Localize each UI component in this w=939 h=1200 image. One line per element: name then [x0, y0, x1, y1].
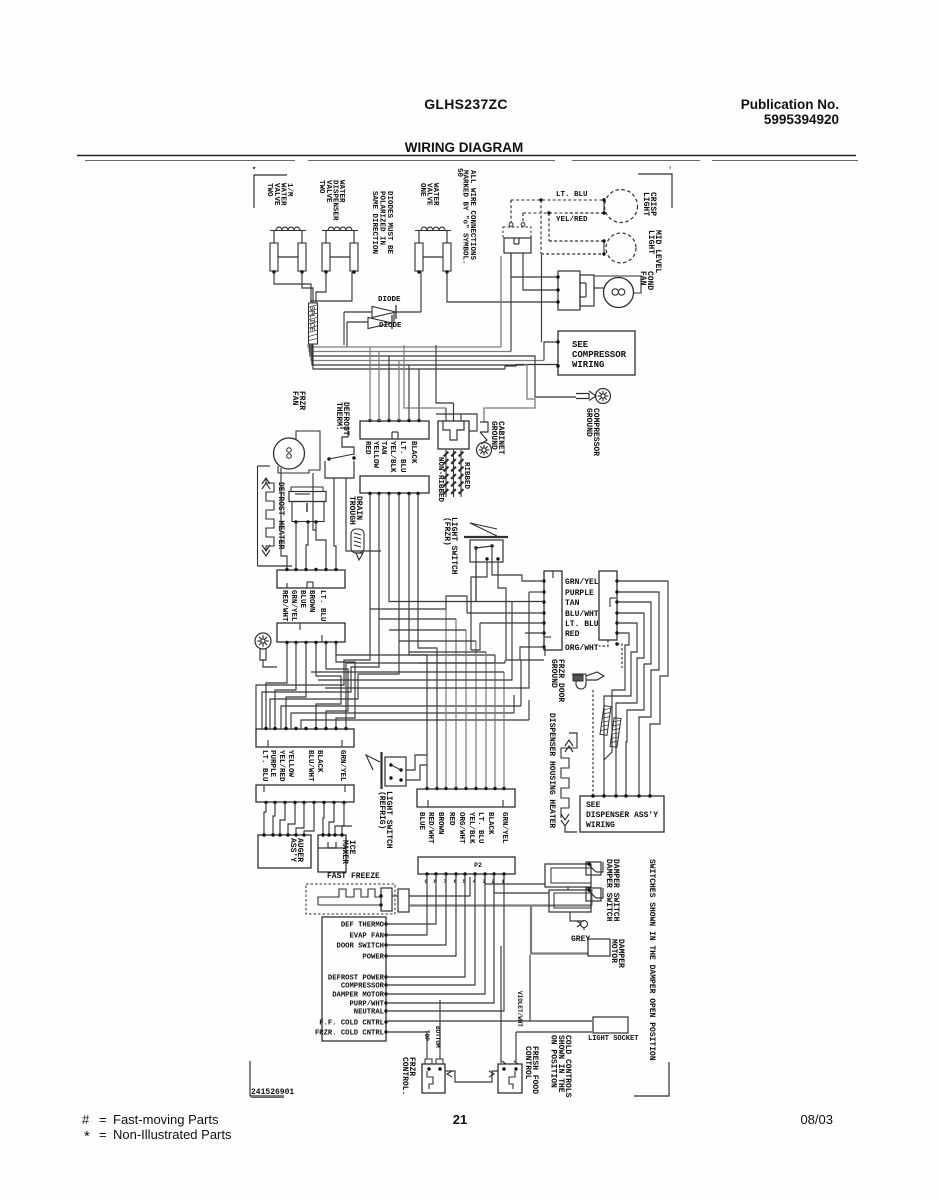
svg-text:EVAP FAN: EVAP FAN — [349, 933, 384, 941]
svg-text:WIRING DIAGRAM: WIRING DIAGRAM — [405, 140, 524, 155]
freezer long connector upper — [256, 729, 354, 747]
svg-text:TAN: TAN — [565, 599, 580, 608]
defrost thermostat — [340, 428, 354, 455]
fresh food door harness strip left — [544, 571, 562, 650]
fresh food door harness strip right — [599, 571, 617, 640]
wire valve one left lead — [420, 272, 422, 312]
svg-text:RED: RED — [565, 630, 580, 639]
svg-text:GRN/YEL: GRN/YEL — [289, 590, 297, 622]
svg-text:P2: P2 — [474, 862, 482, 869]
svg-text:RED: RED — [447, 812, 455, 826]
defrost heater terminal block — [291, 487, 323, 492]
svg-text:PURP/WHT: PURP/WHT — [349, 1001, 384, 1009]
ribbed wire connector — [438, 421, 469, 449]
svg-text:AUGERASS'Y: AUGERASS'Y — [288, 838, 304, 862]
wire dashed yel/red — [523, 212, 598, 214]
solenoid water valve one — [415, 230, 451, 232]
svg-text:F.F. COLD CNTRL: F.F. COLD CNTRL — [319, 1020, 384, 1028]
freezer long connector lower — [256, 785, 354, 802]
wire thermostat to freezer connector — [334, 478, 336, 569]
strip terminals — [542, 579, 545, 582]
svg-text:LT. BLU: LT. BLU — [476, 812, 484, 844]
svg-text:GLHS237ZC: GLHS237ZC — [424, 96, 508, 112]
svg-text:21: 21 — [453, 1112, 467, 1127]
svg-text:YEL/BLK: YEL/BLK — [467, 812, 475, 844]
svg-text:ALL WIRE CONNECTIONSMARKED BY: ALL WIRE CONNECTIONSMARKED BY "o" SYMBOL… — [461, 170, 476, 265]
svg-text:ORG/WHT: ORG/WHT — [457, 812, 465, 844]
svg-text:5995394920: 5995394920 — [764, 112, 839, 127]
svg-text:DEFROST POWER: DEFROST POWER — [328, 975, 385, 983]
light switch frzr — [464, 523, 508, 562]
see dispenser assy wiring box — [580, 796, 664, 832]
wire valve one right lead — [447, 272, 558, 302]
fresh food cold control — [498, 1061, 522, 1093]
frzr cold control — [422, 1059, 445, 1093]
cabinet ground lug — [480, 422, 488, 432]
svg-text:Fast-moving Parts: Fast-moving Parts — [113, 1112, 219, 1127]
wires crossing nest to lower connector — [256, 643, 529, 729]
splice SP2 — [600, 706, 611, 736]
freezer harness connector lower — [277, 623, 345, 642]
condenser fan motor — [604, 278, 634, 308]
wire dashed lt.blu to crisp light — [511, 199, 604, 201]
wire dashed org/wht to frzr door ground — [617, 644, 622, 668]
svg-text:LT. BLU: LT. BLU — [556, 191, 588, 199]
wires bus down to evaporator connector — [370, 347, 419, 421]
svg-text:241526901: 241526901 — [251, 1088, 294, 1097]
svg-text:FRZR. COLD CNTRL: FRZR. COLD CNTRL — [315, 1030, 384, 1038]
svg-text:50: 50 — [455, 168, 463, 178]
defrost heater element — [258, 466, 293, 566]
svg-text:LT. BLU: LT. BLU — [565, 620, 599, 629]
damper motor box — [588, 939, 610, 956]
wires from frzr light switch — [475, 562, 477, 601]
wires from lower connector nested drop — [266, 643, 355, 729]
title rule — [77, 155, 856, 157]
svg-text:DAMPER MOTOR: DAMPER MOTOR — [332, 992, 384, 1000]
wires connector to auger — [262, 803, 314, 837]
ribbed wires hatched — [444, 450, 464, 497]
svg-text:CABINETGROUND: CABINETGROUND — [489, 421, 505, 455]
svg-text:NON-RIBBED: NON-RIBBED — [436, 457, 444, 503]
wire to light socket — [386, 1020, 592, 1022]
ground lug left — [255, 633, 271, 649]
svg-text:BLACK: BLACK — [409, 441, 417, 464]
svg-text:SEE: SEE — [586, 801, 601, 810]
svg-text:POWER: POWER — [362, 954, 384, 962]
svg-text:=: = — [99, 1112, 107, 1127]
svg-text:ORG/WHT: ORG/WHT — [565, 644, 599, 653]
frame bracket top-left — [254, 175, 287, 208]
svg-text:COMPRESSOR: COMPRESSOR — [572, 350, 627, 360]
svg-text:DAMPER SWITCHDAMPER SWITCH: DAMPER SWITCHDAMPER SWITCH — [604, 859, 620, 922]
fast freeze heater element — [318, 888, 392, 911]
splice SP1 — [309, 303, 318, 344]
wire valve two left lead to splice — [274, 272, 311, 303]
svg-text:BLUE: BLUE — [298, 590, 306, 609]
svg-text:DOOR SWITCH: DOOR SWITCH — [337, 943, 384, 951]
damper switch lower — [549, 888, 601, 912]
solenoid water dispenser valve two — [322, 230, 358, 232]
wire between cold controls — [445, 1071, 498, 1082]
damper switch upper — [545, 862, 601, 887]
wire heater pins to freezer connector — [295, 522, 297, 569]
svg-text:BLU/WHT: BLU/WHT — [565, 610, 599, 619]
svg-text:COMPRESSOR: COMPRESSOR — [341, 983, 385, 991]
svg-text:SWITCHES SHOWN IN THE DAMPER O: SWITCHES SHOWN IN THE DAMPER OPEN POSITI… — [647, 859, 656, 1061]
wires P2 to damper switches — [485, 877, 545, 884]
wire damper switch drop — [567, 887, 569, 890]
svg-text:08/03: 08/03 — [800, 1112, 833, 1127]
wire dashed crisp light return — [566, 212, 604, 214]
frame bracket top-right — [638, 174, 672, 208]
svg-text:WIRING: WIRING — [586, 821, 615, 830]
svg-text:DEF THERMO: DEF THERMO — [341, 922, 385, 930]
wires P2 to control list staircase — [386, 877, 504, 1011]
wire door switch lead B — [523, 253, 558, 290]
wire lt.blu riser — [544, 342, 558, 361]
svg-text:*: * — [84, 1128, 90, 1145]
evaporator connector receptacle — [360, 476, 429, 493]
svg-text:YEL/RED: YEL/RED — [277, 750, 285, 782]
wire to compressor ground — [531, 356, 576, 397]
wire diode D1 input — [344, 311, 372, 313]
svg-text:': ' — [668, 167, 672, 175]
svg-text:LT. BLU: LT. BLU — [398, 441, 406, 473]
svg-text:FAST FREEZE: FAST FREEZE — [327, 872, 380, 881]
svg-text:Non-Illustrated Parts: Non-Illustrated Parts — [113, 1127, 232, 1142]
fast freeze connector — [398, 889, 409, 912]
evaporator connector plug — [360, 421, 429, 439]
wires into ribbed connector — [445, 408, 447, 421]
svg-text:YEL/RED: YEL/RED — [556, 216, 588, 224]
wire fast freeze bus to damper — [409, 904, 592, 906]
drain trough heater — [351, 529, 364, 553]
wire cabinet ground feed — [436, 414, 477, 431]
wire dispenser valve left lead — [316, 272, 326, 303]
crisp light lamp — [605, 190, 638, 223]
svg-text:CRISPLIGHT: CRISPLIGHT — [641, 192, 657, 216]
svg-text:LT. BLU: LT. BLU — [318, 590, 326, 622]
svg-text:DIODE: DIODE — [378, 296, 401, 304]
svg-text:YELLOW: YELLOW — [286, 750, 294, 778]
freezer fan motor — [274, 438, 305, 469]
frzr door ground lug — [572, 672, 604, 689]
svg-text:TAN: TAN — [379, 441, 387, 455]
svg-text:BOTTOM: BOTTOM — [434, 1026, 441, 1048]
wire fast freeze to P2 — [392, 895, 398, 897]
wire gray drop to cabinet ground run — [484, 365, 535, 422]
auger assy box — [258, 835, 311, 868]
svg-text:GRN/YEL: GRN/YEL — [500, 812, 508, 844]
freezer fan bracket — [278, 431, 320, 473]
svg-text:YEL/BLK: YEL/BLK — [388, 441, 396, 473]
svg-text:SPLICE: SPLICE — [307, 306, 315, 331]
damper lamp — [577, 921, 588, 931]
wires horizontal nest middle — [311, 548, 544, 720]
wire diode D2 input — [347, 321, 368, 323]
svg-text:RED/WHT: RED/WHT — [426, 812, 434, 844]
wire door switch lead A — [511, 253, 558, 277]
connector P2 — [418, 857, 515, 874]
svg-text:*: * — [252, 167, 256, 175]
svg-text:NEUTRAL: NEUTRAL — [354, 1009, 384, 1017]
mid level light lamp — [606, 233, 636, 263]
wire diode outputs to valve one — [396, 311, 421, 313]
light socket box — [593, 1017, 628, 1033]
light switch refrig — [366, 752, 406, 789]
svg-text:DIODES MUST BEPOLARIZED INSAME: DIODES MUST BEPOLARIZED INSAME DIRECTION — [370, 191, 393, 255]
svg-text:SEE: SEE — [572, 340, 589, 350]
condenser fan connector — [558, 271, 580, 310]
wire to damper motor grey — [531, 906, 588, 954]
wires from refrig light switch — [406, 755, 427, 770]
svg-text:GRN/YEL: GRN/YEL — [338, 750, 346, 782]
wire dispenser valve right lead to diode — [310, 272, 352, 301]
svg-text:PURPLE: PURPLE — [565, 589, 594, 598]
svg-text:BROWN: BROWN — [307, 590, 315, 613]
wire valve two right lead — [302, 272, 313, 303]
condenser fan housing — [594, 276, 641, 293]
svg-text:#: # — [82, 1112, 90, 1127]
wires connector to ice maker — [321, 803, 352, 837]
svg-text:RED/WHT: RED/WHT — [280, 590, 288, 622]
wire compressor feed — [505, 365, 558, 370]
svg-text:GRN/YEL: GRN/YEL — [565, 578, 599, 587]
svg-text:RED: RED — [363, 441, 371, 455]
svg-text:BLACK: BLACK — [315, 750, 323, 773]
wire lt.blu vertical from lights — [541, 255, 543, 342]
wires from light switch refrig to strips — [471, 623, 480, 650]
wire bus from splice — [308, 344, 544, 369]
svg-text:BLUE: BLUE — [417, 812, 425, 831]
door switch for lights — [503, 227, 531, 238]
wire dashed to mid level light — [540, 200, 542, 254]
svg-text:=: = — [99, 1127, 107, 1142]
svg-text:LIGHT SOCKET: LIGHT SOCKET — [588, 1035, 638, 1043]
wire dashed org/wht — [531, 646, 544, 648]
wire frzr cold cntrl to controls — [386, 1032, 427, 1059]
wires nest feeding right connector bundle — [446, 609, 504, 789]
svg-text:BLACK: BLACK — [486, 812, 494, 835]
wires central bundle down from evaporator connector — [265, 494, 544, 790]
ice maker box — [318, 835, 346, 872]
svg-text:BROWN: BROWN — [436, 812, 444, 835]
wire dashed risers to door switch — [510, 200, 512, 223]
svg-text:DISPENSER HOUSING HEATER: DISPENSER HOUSING HEATER — [547, 713, 556, 828]
wire fan lead to freezer connector — [281, 468, 287, 569]
splice SP3 — [610, 718, 621, 748]
wire violet to fresh food control — [500, 946, 502, 1063]
control harness connector — [417, 789, 515, 807]
wire bus risers to lights circuit — [500, 256, 502, 347]
wires from right strip nested — [604, 581, 668, 796]
svg-text:TOP: TOP — [423, 1030, 430, 1041]
compressor ground lug — [576, 394, 589, 399]
control terminal list box — [322, 917, 386, 1041]
svg-text:WIRING: WIRING — [572, 360, 604, 370]
solenoid water valve two — [270, 230, 306, 232]
svg-text:VIOLET/WHT: VIOLET/WHT — [516, 991, 523, 1027]
svg-text:Publication No.: Publication No. — [741, 97, 839, 112]
frame bracket bottom-left — [250, 1061, 284, 1096]
dispenser housing heater element — [561, 733, 577, 832]
svg-text:BLU/WHT: BLU/WHT — [306, 750, 314, 782]
svg-text:LT. BLU: LT. BLU — [260, 750, 268, 782]
svg-text:DISPENSER ASS'Y: DISPENSER ASS'Y — [586, 811, 658, 820]
svg-text:YELLOW: YELLOW — [371, 441, 379, 469]
frame bracket bottom-right — [634, 1062, 669, 1096]
wires into left strip — [507, 575, 544, 581]
svg-text:PURPLE: PURPLE — [268, 750, 276, 778]
wire diode input drop — [343, 312, 345, 345]
fast freeze heater dashed enclosure — [306, 884, 395, 914]
freezer harness connector upper — [277, 570, 345, 588]
see compressor wiring box — [558, 331, 635, 375]
